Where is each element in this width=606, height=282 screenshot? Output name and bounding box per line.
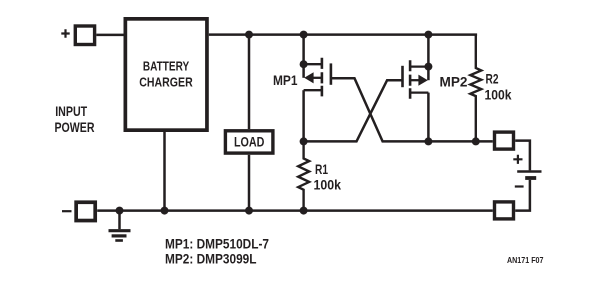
wire load bottom lead: [248, 155, 251, 211]
svg-text:MP2: MP2: [440, 73, 468, 89]
svg-text:MP1: DMP510DL-7: MP1: DMP510DL-7: [165, 236, 269, 252]
svg-text:MP1: MP1: [273, 72, 298, 88]
junction MP2 drain node: [424, 137, 432, 145]
junction R2 bottom: [472, 137, 480, 145]
junction R1 bottom: [300, 207, 308, 215]
battery B1 plate long: [517, 170, 541, 173]
junction MP2 source-body: [424, 63, 432, 71]
terminal input positive: [75, 26, 94, 45]
wire plus terminal to charger: [96, 34, 123, 37]
svg-text:R2: R2: [486, 71, 499, 87]
svg-text:LOAD: LOAD: [234, 133, 265, 149]
ground symbol: [109, 211, 131, 241]
junction MP2 column top: [424, 31, 432, 39]
junction charger return: [161, 207, 169, 215]
wire top rail: [209, 33, 477, 36]
ground junction: [116, 207, 124, 215]
junction load top: [245, 31, 253, 39]
battery B1 plate short: [525, 176, 536, 180]
junction MP1 source-body: [300, 60, 308, 68]
terminal output negative: [495, 202, 514, 219]
minus sign input: [62, 210, 72, 212]
junction MP1 drain node: [300, 137, 308, 145]
svg-text:100k: 100k: [314, 176, 342, 192]
wire output plus to battery: [515, 141, 530, 171]
wire output node row: [428, 140, 492, 143]
svg-text:AN171 F07: AN171 F07: [507, 256, 544, 265]
transistor MP2: [403, 60, 429, 99]
label battery minus: [515, 185, 524, 187]
wire MP2 source lead: [427, 35, 430, 81]
terminal input negative: [76, 202, 95, 220]
junction load bottom: [245, 207, 253, 215]
wire charger bottom lead: [163, 132, 166, 211]
svg-text:100k: 100k: [485, 86, 512, 102]
resistor R2: [470, 35, 481, 142]
svg-text:MP2: DMP3099L: MP2: DMP3099L: [165, 251, 257, 267]
wire battery negative return: [515, 180, 530, 211]
resistor R1: [298, 141, 309, 210]
wire MP1 source lead: [302, 35, 305, 78]
load box: [225, 131, 273, 153]
svg-text:BATTERY: BATTERY: [143, 59, 189, 74]
svg-text:INPUT: INPUT: [55, 103, 87, 119]
svg-text:POWER: POWER: [55, 119, 95, 135]
label battery plus: [513, 155, 522, 164]
svg-text:CHARGER: CHARGER: [139, 75, 193, 90]
wire MP2 gate to MP1 drain cross-coupling: [304, 80, 403, 141]
terminal output positive: [495, 132, 514, 149]
wire bottom rail: [97, 209, 493, 212]
junction MP1 column top: [300, 31, 308, 39]
wire MP1 drain lead: [302, 90, 305, 141]
battery charger U1: [125, 19, 207, 130]
transistor MP1: [304, 58, 331, 97]
wire MP2 drain lead: [427, 93, 430, 142]
wire load top lead: [248, 35, 251, 130]
plus sign input: [61, 29, 69, 37]
wire MP1 gate to MP2 drain cross-coupling: [331, 78, 429, 141]
svg-text:R1: R1: [315, 161, 328, 177]
